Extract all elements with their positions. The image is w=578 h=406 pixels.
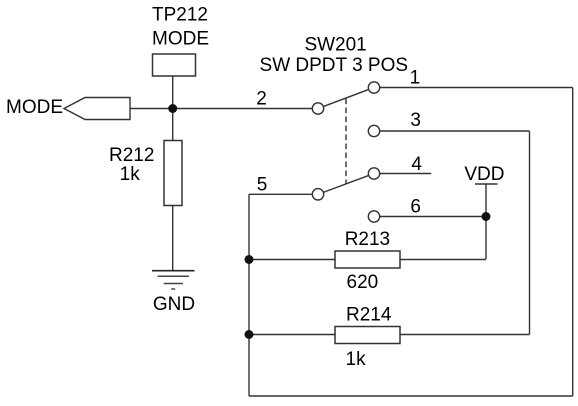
svg-text:620: 620 [347,272,379,293]
svg-text:R214: R214 [346,305,392,326]
svg-text:5: 5 [257,175,268,196]
svg-text:1k: 1k [346,349,367,370]
svg-text:SW DPDT 3 POS: SW DPDT 3 POS [260,55,409,76]
svg-text:3: 3 [410,110,421,131]
svg-text:4: 4 [411,154,422,175]
svg-text:1: 1 [410,68,421,89]
svg-text:R213: R213 [345,229,390,250]
svg-text:R212: R212 [109,145,154,166]
svg-text:GND: GND [153,294,195,315]
svg-text:6: 6 [410,197,421,218]
svg-text:MODE: MODE [6,97,63,118]
svg-text:TP212: TP212 [152,5,208,26]
svg-text:1k: 1k [120,164,141,185]
svg-text:MODE: MODE [152,28,209,49]
svg-text:SW201: SW201 [304,35,366,56]
svg-text:VDD: VDD [464,164,504,185]
svg-text:2: 2 [256,89,267,110]
